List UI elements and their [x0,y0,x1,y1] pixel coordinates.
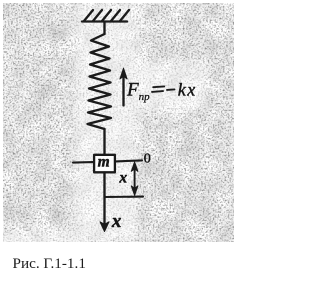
svg-text:x: x [118,169,127,186]
wire: ceiling stub [103,22,105,35]
svg-text:x: x [111,211,122,232]
svg-text:0: 0 [144,152,151,167]
node 0 equilibrium line [73,160,142,162]
ceiling hatching [82,10,129,22]
force arrow Fpr [120,68,127,105]
displacement double arrow [131,162,138,195]
minus sign [167,88,175,91]
displaced position line [105,196,144,198]
caption [13,255,86,273]
svg-text:m: m [98,154,110,171]
equals sign [152,86,164,92]
scanned paper speckle background [0,0,239,288]
x axis wire down with arrowhead [100,173,109,232]
spring K [88,34,112,129]
wire: spring to mass [103,129,105,155]
mass m box [94,154,115,173]
